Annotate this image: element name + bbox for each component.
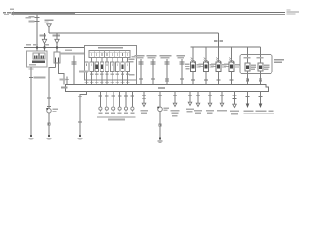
label connector C3	[164, 107, 170, 111]
connector C3 dot	[157, 107, 159, 109]
harness label left	[61, 87, 68, 89]
arrow h	[233, 104, 237, 107]
wire ground lead 1	[30, 67, 32, 135]
fuse F8 element	[127, 64, 129, 67]
wire main power bus top line	[12, 12, 285, 13]
tick d	[188, 95, 192, 97]
feed 3 wire	[166, 59, 168, 85]
relay R2	[54, 52, 60, 63]
cluster element 2	[40, 53, 46, 59]
wire label below cluster	[29, 68, 34, 69]
right fuse column 3 ticks	[216, 58, 220, 64]
output arrow wire d	[189, 92, 191, 103]
strip dividers	[94, 51, 125, 58]
tick f	[208, 95, 212, 97]
harness label mid	[158, 87, 165, 89]
tick on ground lead 1	[29, 77, 33, 79]
wire ground lead 2 upper	[48, 68, 50, 109]
feed 1 label	[135, 55, 145, 56]
label connector C1	[45, 19, 54, 21]
connector ring terminals	[99, 107, 134, 110]
bus right end label	[287, 9, 300, 14]
connector C1 triangle	[47, 24, 52, 28]
solid arrow i	[246, 104, 250, 109]
fuse F2 core	[96, 64, 98, 68]
label on down wire	[214, 40, 218, 42]
fuse FR4 core	[230, 64, 233, 68]
wire drop A	[44, 33, 46, 39]
fuse F1 element	[91, 64, 93, 67]
wire relay R2 down left	[55, 63, 57, 68]
wire feed to fuse box	[24, 47, 85, 49]
cluster element 2 bars	[41, 55, 42, 58]
right fuse column 1 lower wire	[192, 72, 194, 85]
tick long ground	[158, 95, 162, 97]
module fuse 2	[258, 63, 263, 71]
right fuse column 3 wire	[218, 47, 220, 62]
right fuse column 3 lower tick	[217, 79, 221, 81]
right distribution bus	[191, 46, 261, 48]
label b	[141, 110, 149, 114]
stub feed wire	[73, 56, 75, 85]
tick terminal 1	[34, 17, 39, 19]
arrow g	[220, 103, 224, 106]
fuse F3 core	[101, 64, 103, 68]
output arrow wire b	[143, 92, 145, 104]
right fuse column 4 ticks	[229, 58, 233, 64]
wire from connector C1	[48, 27, 50, 33]
arrow e	[196, 103, 200, 106]
right fuse column 4 lower wire	[231, 72, 233, 85]
fuse F7	[121, 62, 125, 72]
fuse FR2 labels	[199, 63, 214, 67]
pin labels above cluster	[26, 44, 49, 46]
right fuse column 2 wire	[205, 47, 207, 62]
fuse F5	[110, 62, 114, 72]
square tick module out 1	[246, 79, 248, 81]
label d	[186, 108, 194, 112]
relay box (left cluster)	[27, 51, 48, 67]
junction dot B	[56, 47, 58, 49]
fuse F3	[100, 62, 104, 72]
fuse FR1	[191, 62, 196, 72]
inline connector square	[48, 123, 50, 125]
label f	[206, 110, 214, 114]
square tick module out 2	[259, 79, 261, 81]
wire drop B lower	[56, 44, 58, 52]
label relay R2	[62, 53, 70, 55]
connector C2 dot	[46, 108, 48, 110]
connector outputs group wires	[100, 92, 132, 108]
label right of junction	[65, 50, 72, 52]
short stub wire	[66, 77, 68, 85]
fuse F5 element	[111, 64, 113, 67]
strip to fuse wires	[92, 58, 128, 63]
arrow f	[208, 103, 212, 106]
label e	[194, 110, 202, 114]
fuse box right label	[132, 56, 136, 57]
label above bus left end	[10, 9, 14, 10]
bus tick	[13, 11, 15, 15]
fuse output ticks	[85, 82, 130, 84]
feed 3 ticks	[165, 62, 170, 64]
output solid arrow wire i	[247, 92, 249, 105]
fuse F8	[126, 62, 130, 72]
fuse box interior right labels	[129, 59, 135, 76]
fuse F6 element	[116, 64, 118, 67]
relay module box	[240, 55, 272, 74]
group caption	[108, 119, 125, 121]
fuse box title	[98, 47, 123, 49]
right fuse column 1 lower tick	[191, 79, 195, 81]
fuse box outer	[85, 46, 137, 81]
fuse output wires	[87, 72, 128, 85]
bus left cap	[11, 12, 13, 15]
junction dot A	[44, 47, 46, 49]
fuse F1	[90, 62, 94, 72]
output arrow wire g	[221, 92, 223, 104]
module right label	[274, 59, 284, 63]
wire jog left	[49, 67, 56, 69]
arrow d	[188, 102, 192, 105]
fuse box right edge drop	[136, 80, 138, 85]
wire ignition bus horizontal	[49, 32, 219, 34]
fuse FR2	[204, 62, 209, 72]
module fuse 2 core	[259, 65, 262, 69]
right fuse column 4 lower tick	[230, 79, 234, 81]
wire module out 2	[260, 71, 262, 85]
connector strip	[89, 51, 130, 58]
stub mid ticks	[139, 79, 184, 81]
feed 4 wire	[181, 59, 183, 85]
fuse FR3	[216, 62, 221, 72]
wire relay R2 down right	[59, 63, 65, 85]
cluster element 1	[33, 53, 39, 59]
wire vertical feed from bus	[36, 15, 38, 51]
fuse FR1 core	[192, 64, 195, 68]
ground G2	[46, 135, 51, 140]
feed 2 label	[147, 55, 157, 56]
fuse FR2 core	[205, 64, 208, 68]
label terminal 2	[29, 21, 35, 23]
right fuse column 1 wire	[192, 47, 194, 62]
right fuse column 2 ticks	[204, 58, 208, 64]
ticks b	[142, 96, 146, 99]
jog tick	[78, 121, 82, 123]
module fuse 1 label	[251, 65, 256, 71]
stub double tick	[72, 62, 77, 64]
feed 4 ticks	[180, 62, 185, 64]
long ground wire lower	[159, 112, 161, 138]
ground G1	[28, 135, 33, 140]
feed 3 label	[160, 55, 172, 56]
short stub tick	[65, 78, 69, 80]
relay box dark label	[32, 61, 45, 63]
long ground wire upper	[159, 92, 161, 108]
connector outputs ticks	[99, 95, 135, 97]
ticks h	[233, 96, 237, 99]
right fuse column 2 lower wire	[205, 72, 207, 85]
right fuse column 1 ticks	[191, 58, 195, 64]
tick i	[246, 96, 250, 98]
output arrow wire e	[197, 92, 199, 104]
connector strip inner line	[89, 51, 130, 53]
solid arrow j	[259, 104, 263, 109]
module label above fuse 1	[244, 57, 251, 58]
tick c	[173, 95, 177, 97]
short stub label	[60, 79, 66, 81]
fuse F4 element	[106, 64, 108, 67]
output solid arrow wire j	[260, 92, 262, 105]
feed 4 label	[177, 55, 186, 56]
wire main power bus bottom line	[12, 14, 285, 15]
jog tick upper	[78, 96, 82, 98]
fuse F6	[116, 62, 120, 72]
label wire A	[40, 35, 47, 37]
right fuse column 3 lower wire	[218, 72, 220, 85]
wire module out 1	[247, 71, 249, 85]
label connector C2	[53, 109, 59, 113]
connector grommet C3	[158, 107, 163, 112]
strip pin ticks	[92, 53, 128, 56]
wire under-box jog	[80, 92, 87, 136]
connector grommet C2	[47, 109, 51, 113]
fuse F7 core	[121, 64, 123, 68]
fuse FR3 labels	[211, 63, 226, 67]
module fuse 2 label	[264, 65, 270, 71]
tick e	[196, 95, 200, 97]
arrow c	[173, 103, 177, 106]
fuse FR1 labels	[185, 63, 201, 69]
ground G3	[77, 135, 82, 140]
feed 1 ticks	[139, 62, 144, 64]
wire drop B	[56, 33, 58, 39]
label h	[230, 110, 239, 114]
cluster element 1 bars	[34, 55, 35, 58]
right fuse column 4 wire	[231, 47, 233, 62]
label c	[171, 110, 180, 117]
connector triangle A	[42, 39, 46, 43]
feed 2 ticks	[151, 62, 156, 64]
ring terminal tails	[100, 110, 132, 111]
output arrow wire c	[174, 92, 176, 104]
fuse F0	[85, 62, 89, 72]
fuse FR4	[229, 62, 234, 72]
wire main power bus second line	[12, 13, 75, 14]
arrow b	[142, 103, 146, 106]
fuse FR3 core	[217, 64, 220, 68]
fuse labels under row	[90, 74, 129, 75]
module fuse 1 core	[246, 65, 249, 69]
wire into module 1	[247, 47, 249, 63]
fuse F2	[95, 62, 99, 72]
label row above stub	[60, 53, 84, 55]
fuse F4	[105, 62, 109, 72]
tick g	[220, 95, 224, 97]
inline connector square 2	[159, 124, 161, 126]
module fuse 1	[245, 63, 250, 71]
label below bus near left	[26, 17, 32, 19]
output arrow wire h	[234, 92, 236, 105]
label wire B	[53, 35, 61, 37]
wire down from ignition bus	[218, 33, 220, 47]
small label	[79, 71, 88, 73]
feed 1 wire	[140, 59, 142, 85]
ring terminal labels	[98, 113, 134, 114]
tick terminal 2	[34, 21, 39, 23]
shared label i j	[244, 110, 275, 113]
wire drop A lower	[44, 44, 46, 51]
relay box small label	[29, 64, 36, 65]
wire into module 2	[260, 47, 262, 63]
node label V-B (battery feed)	[3, 12, 11, 15]
tick on ground lead 2	[47, 97, 51, 99]
relay R2 bars	[55, 57, 56, 62]
junction dot C	[36, 47, 38, 49]
tick j	[259, 96, 263, 98]
group underline	[97, 116, 136, 118]
right fuse column 2 lower tick	[204, 79, 208, 81]
fuse F0 element	[86, 64, 88, 67]
tick above connector	[47, 105, 51, 107]
ground G4	[157, 137, 162, 142]
wire ground lead 2 lower	[48, 113, 50, 135]
label terminal 1	[29, 16, 35, 18]
output arrow wire f	[209, 92, 211, 104]
feed 2 wire	[152, 59, 154, 85]
connector triangle B	[55, 39, 59, 43]
label on ground lead 1	[34, 77, 46, 79]
fuse FR4 labels	[224, 63, 239, 67]
label g	[217, 110, 227, 112]
module label above fuse 2	[257, 57, 264, 58]
main harness connector box	[66, 85, 269, 92]
